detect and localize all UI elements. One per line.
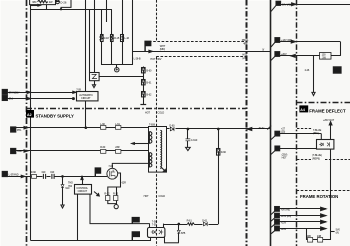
wire vertical net 7	[122, 0, 124, 65]
hot/cold dashed isolation barrier upper	[156, 0, 158, 42]
svg-text:D-26: D-26	[60, 0, 67, 4]
svg-text:D-61: D-61	[202, 219, 208, 222]
svg-text:01F: 01F	[42, 171, 47, 174]
barrier dash-dot center	[246, 0, 248, 246]
resistor R-607	[101, 150, 106, 154]
connector pin P-E	[2, 171, 7, 176]
posistor box R-604	[90, 73, 100, 81]
wire 5v	[7, 98, 72, 100]
coil L-613 vertical	[121, 35, 124, 42]
pin S1 top right	[276, 1, 281, 5]
wire opto2 down	[330, 149, 332, 240]
diode D-611 drop	[62, 176, 64, 184]
header A4 frame deflect	[299, 105, 308, 112]
wire jog to label	[331, 231, 335, 233]
fuse circle D-26	[56, 0, 60, 4]
svg-text:(23): (23)	[242, 57, 246, 60]
node gate junction	[62, 176, 64, 178]
svg-text:(REP6): (REP6)	[312, 157, 320, 160]
wire vertical net 5	[106, 0, 108, 22]
wire vertical net 4	[101, 9, 103, 65]
wire vertical net 6	[111, 9, 113, 65]
connector pin P-D	[11, 148, 16, 153]
wire degauss drop	[85, 101, 87, 128]
mosfet Q-601	[107, 168, 118, 179]
arrow control to gate net	[94, 192, 99, 196]
pin S5	[275, 146, 280, 151]
svg-text:62R: 62R	[122, 181, 127, 184]
svg-text:HOT: HOT	[144, 195, 150, 198]
open arrow down	[61, 205, 64, 208]
svg-text:(MD): (MD)	[160, 48, 165, 51]
capacitor C-612	[51, 174, 55, 179]
wire control sense with up arrow	[82, 176, 84, 184]
zener D-607	[217, 149, 220, 156]
wire drop to deflection	[313, 56, 315, 93]
svg-text:R-60: R-60	[31, 171, 37, 174]
ground bar	[140, 104, 146, 106]
wire vertical net 3	[94, 0, 96, 72]
primary winding lower	[149, 153, 152, 167]
svg-text:7-09: 7-09	[76, 89, 81, 92]
divider dashed frame rotation	[297, 190, 350, 192]
zener D-613	[178, 224, 180, 230]
svg-text:10V (A2): 10V (A2)	[282, 3, 291, 6]
svg-text:L-61: L-61	[115, 123, 120, 126]
wire opto return loop	[164, 242, 179, 244]
svg-text:24B: 24B	[317, 235, 322, 238]
svg-text:01F: 01F	[50, 171, 55, 174]
barrier dash-dot right	[296, 0, 298, 246]
node secondary	[187, 128, 189, 130]
svg-text:87B: 87B	[181, 232, 186, 235]
svg-text:L-STAND: L-STAND	[9, 173, 19, 176]
svg-text:PPL: PPL	[17, 129, 22, 132]
svg-text:STANDBY: STANDBY	[9, 91, 20, 94]
svg-text:+15V: +15V	[281, 221, 287, 224]
wire vertical net 1	[85, 0, 87, 92]
black flag marker W3	[132, 217, 140, 224]
ground symbol	[186, 147, 191, 150]
svg-text:24B: 24B	[307, 235, 312, 238]
wire to pin circle	[108, 200, 116, 203]
degauss circuit box	[77, 92, 99, 101]
transformer T-608	[149, 127, 167, 173]
resistor R-601 zigzag in filter box	[38, 0, 48, 3]
svg-text:D-60: D-60	[169, 124, 175, 127]
svg-text:+20V: +20V	[281, 53, 287, 56]
svg-text:R-12: R-12	[104, 193, 110, 196]
hot/cold dashed isolation barrier lower	[156, 57, 158, 246]
dashed stub t-blue	[297, 128, 312, 130]
wire control to opto	[90, 194, 150, 224]
svg-text:HOT: HOT	[282, 157, 288, 160]
svg-text:HOT 230V: HOT 230V	[150, 58, 161, 61]
resistor R-608	[116, 150, 121, 154]
mains filter box F1 (cut at top)	[30, 0, 56, 5]
primary winding upper	[149, 132, 152, 144]
diode D-612	[203, 222, 209, 227]
svg-text:R-15: R-15	[114, 37, 120, 40]
connector pin P-B	[2, 96, 7, 101]
wire drain to transformer	[112, 163, 148, 168]
svg-text:GRN: GRN	[17, 150, 23, 153]
node zener top	[178, 223, 180, 225]
optocoupler IC-602	[317, 140, 334, 150]
node branch	[218, 128, 220, 130]
ground bus bottom	[30, 240, 151, 242]
header A2 standby supply	[26, 110, 34, 118]
svg-text:HOT: HOT	[145, 111, 151, 114]
wire stub corner top	[61, 0, 71, 9]
svg-text:R-61: R-61	[187, 219, 193, 222]
wire standby	[7, 92, 76, 94]
wire posistor to Z-diodes	[99, 76, 144, 78]
wire gate drive line	[7, 176, 107, 178]
zener Z-602	[142, 92, 146, 98]
svg-text:L-16: L-16	[124, 37, 129, 40]
svg-text:C-610: C-610	[191, 139, 198, 142]
svg-text:7-59: 7-59	[152, 224, 157, 227]
resistor R-612 vertical	[111, 35, 114, 42]
svg-text:+15V (A6): +15V (A6)	[281, 215, 292, 218]
svg-text:COLD: COLD	[158, 195, 165, 198]
svg-text:2-26: 2-26	[305, 69, 310, 72]
svg-text:B-60: B-60	[146, 70, 152, 73]
zener Z-601	[142, 80, 146, 86]
pin S2	[275, 38, 280, 43]
wire vertical net 2	[89, 9, 91, 72]
mains cable wire through corridor	[132, 51, 270, 53]
wire +25v out arrow	[330, 123, 332, 140]
svg-text:A4: A4	[300, 108, 305, 112]
pin R2	[275, 213, 280, 218]
svg-text:R-60: R-60	[100, 146, 106, 149]
svg-text:L-26-B: L-26-B	[134, 58, 141, 61]
svg-text:CIRCUIT: CIRCUIT	[78, 190, 88, 193]
pin R3	[275, 220, 280, 225]
pin circle P-604	[114, 205, 118, 209]
wire control to ground bus	[77, 194, 79, 240]
wire bus bottom of verticals	[101, 64, 132, 66]
resistor R-615	[114, 196, 118, 201]
capacitor C-611	[43, 174, 47, 179]
wire mains horizontal	[30, 9, 112, 11]
svg-text:(25): (25)	[281, 131, 285, 134]
secondary winding	[160, 130, 161, 168]
svg-text:+24V: +24V	[281, 228, 287, 231]
svg-text:23R: 23R	[115, 146, 120, 149]
svg-text:B-61: B-61	[146, 82, 152, 85]
svg-text:STANDBY SUPPLY: STANDBY SUPPLY	[36, 114, 74, 119]
wire feedback tap with arrow	[134, 143, 149, 145]
capacitor C-610	[187, 129, 189, 139]
zener Z-600	[142, 68, 146, 74]
diode D-603 secondary	[167, 128, 271, 130]
divider dash-dot A4 horizontal	[297, 102, 350, 104]
black flag marker W4	[132, 231, 140, 240]
pin R4	[275, 226, 280, 231]
wire feedback return	[163, 224, 218, 226]
svg-text:R-18: R-18	[104, 37, 110, 40]
svg-text:FRAME ROTATION: FRAME ROTATION	[300, 194, 338, 199]
pin R1 frame rotation	[275, 207, 280, 212]
wire source network	[108, 173, 121, 195]
divider dash-dot A2 horizontal	[26, 108, 246, 110]
resistor 100 1W box	[320, 53, 332, 60]
svg-text:+25V OUT: +25V OUT	[323, 119, 335, 122]
dashed stub t-blue lower	[297, 159, 311, 161]
svg-text:+B 2V: +B 2V	[258, 127, 265, 130]
svg-text:+5V (A6): +5V (A6)	[281, 208, 290, 211]
wire ac line 2	[16, 150, 149, 152]
control circuit box	[75, 185, 92, 195]
isolation corridor dashed bottom	[156, 56, 246, 58]
svg-text:A2: A2	[27, 113, 32, 117]
wire opto top leads	[149, 224, 151, 228]
node junction	[60, 9, 61, 10]
wire vertical surge net	[143, 67, 145, 105]
svg-text:(A): (A)	[336, 232, 339, 235]
wire feedback branch	[218, 129, 220, 224]
wire ac line 1	[16, 127, 149, 129]
resistor R-621	[318, 238, 323, 243]
svg-text:T-608: T-608	[149, 124, 156, 127]
svg-text:B-62: B-62	[146, 94, 152, 97]
chassis arrow transformer bottom	[161, 167, 165, 171]
svg-text:D-60: D-60	[221, 151, 227, 154]
marker M2	[333, 67, 341, 73]
connector pin P-A standby	[2, 89, 7, 94]
resistor R-618	[188, 223, 195, 226]
wire merge diagonal at bus	[267, 126, 271, 130]
svg-text:(5V): (5V)	[9, 98, 14, 101]
svg-text:4RF: 4RF	[243, 43, 248, 46]
wire stub filter to bus	[46, 5, 48, 10]
pin S4	[275, 131, 280, 136]
svg-text:COLD: COLD	[158, 111, 165, 114]
svg-text:(56V): (56V)	[313, 132, 319, 135]
resistor R-609	[32, 175, 37, 179]
wire mains left vertical	[30, 5, 32, 240]
pin S3	[275, 52, 280, 57]
isolation corridor dashed top	[149, 41, 246, 43]
mains connector symbol P-603	[116, 65, 118, 67]
chassis ground arrow under posistor	[94, 81, 96, 85]
resistor network bottom right	[306, 239, 331, 241]
svg-text:R-13: R-13	[113, 193, 119, 196]
svg-text:CIRCUIT: CIRCUIT	[81, 97, 91, 100]
black flag marker W2	[95, 167, 102, 176]
supply bus vertical right	[270, 0, 272, 246]
section barrier dash-dot left	[26, 0, 28, 246]
resistor R-611 vertical	[100, 35, 103, 42]
optocoupler IC-601	[148, 228, 165, 238]
node mains junction	[85, 127, 87, 129]
wire vertical net 8	[132, 0, 134, 65]
svg-text:+13V (A5): +13V (A5)	[281, 39, 292, 42]
connector pin P-C	[11, 127, 16, 132]
resistor R-614	[106, 196, 110, 201]
resistor R-620	[308, 238, 313, 243]
black flag marker W1	[144, 41, 151, 52]
coil L-606	[116, 126, 121, 130]
coil L-605	[101, 126, 106, 130]
svg-text:7-03: 7-03	[108, 165, 113, 168]
svg-text:FRAME DEFLECT: FRAME DEFLECT	[309, 108, 346, 113]
svg-text:L-60: L-60	[100, 123, 105, 126]
wire arrow stub	[30, 5, 40, 7]
